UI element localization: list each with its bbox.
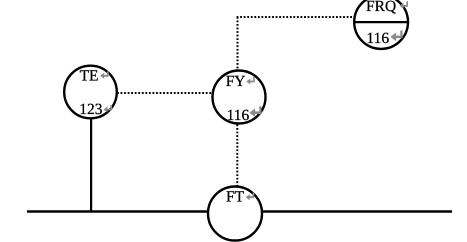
- return mark after FY: [246, 77, 255, 85]
- svg-text:123: 123: [79, 101, 103, 118]
- instrument bubble FRQ: [354, 0, 408, 49]
- svg-text:116: 116: [227, 107, 250, 124]
- instrument bubble FY: [213, 71, 266, 124]
- return mark after 116 (FY), large: [249, 106, 261, 117]
- svg-text:FY: FY: [226, 73, 246, 90]
- signal line FY up and to FRQ (dotted): [237, 17, 239, 70]
- return mark after 116 (FRQ), large: [390, 30, 402, 41]
- svg-text:FRQ: FRQ: [366, 0, 396, 15]
- svg-text:TE: TE: [80, 67, 99, 84]
- signal line corner to FRQ (dotted): [237, 16, 354, 18]
- FRQ panel-mount midline: [353, 21, 409, 23]
- signal line TE to FY (dotted): [117, 92, 213, 94]
- return mark after TE: [100, 71, 109, 79]
- svg-text:FT: FT: [226, 189, 245, 206]
- instrument bubble FT: [208, 187, 262, 241]
- wire: TE stem to pipe: [90, 118, 92, 212]
- return mark after FT: [246, 193, 255, 201]
- signal line FY down to FT (dotted): [236, 125, 238, 188]
- return mark after FRQ: [400, 1, 409, 9]
- process pipe line: [27, 210, 452, 212]
- svg-text:116: 116: [366, 30, 389, 47]
- instrument bubble TE: [64, 66, 117, 119]
- return mark after 123: [104, 105, 113, 113]
